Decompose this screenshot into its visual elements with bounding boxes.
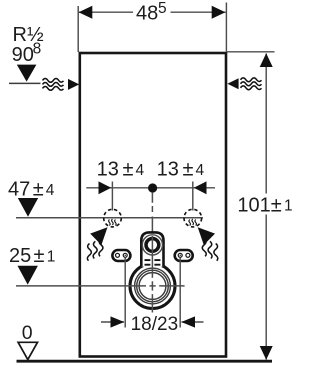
width dimension 48.5 extension line left [77,6,79,52]
water supply label 90.8 [12,41,42,66]
47±4 label [8,178,55,200]
dimension value 13±4 left [97,159,145,181]
svg-text:18/23: 18/23 [131,314,179,335]
mounting plate right [175,250,193,261]
svg-text:13: 13 [97,159,119,181]
18/23 arrow right (points left) [181,316,195,327]
dimension value 13±4 right [157,159,205,181]
width dimension value 48(.5) [136,0,167,25]
extension line left hole [111,182,113,211]
floor line [17,360,273,363]
svg-text:4: 4 [46,182,55,199]
mini squiggles in left circle [109,219,117,226]
svg-text:±: ± [183,159,194,181]
width dimension 48.5 extension line right [225,3,227,52]
25±1 label [9,245,55,267]
svg-text:8: 8 [33,41,42,58]
svg-text:48: 48 [136,3,158,25]
svg-text:0: 0 [22,322,33,344]
25 level triangle [18,266,38,285]
svg-text:4: 4 [136,162,145,179]
47±4 reference line [16,217,203,219]
dimension 13±4 13±4 line [86,187,215,189]
center node dot [148,183,157,192]
svg-text:1: 1 [284,198,293,215]
height dimension 101±1 line [265,54,267,360]
keyhole outlet (flush bend) [141,232,163,266]
dimension 13 arrow right (points left) [194,181,207,194]
hidden-edge dashes in keyhole [145,260,161,265]
mini squiggles in right circle [189,219,197,226]
25±1 reference line / circle horizontal centerline [16,285,185,287]
width dimension arrow left [79,6,93,19]
svg-text:±: ± [34,245,45,267]
18/23 extension line right [179,258,181,328]
supply level triangle [17,65,37,82]
svg-text:±: ± [123,159,134,181]
keyhole inner rings [142,235,162,255]
supply level base line [9,82,41,84]
svg-text:5: 5 [158,0,167,17]
diagonal flow arrow right (squiggles + arrowhead toward circle) [202,239,218,261]
height dimension value 101±1 [237,195,292,217]
water outflow symbol right of box (arrow + squiggle) [241,78,262,90]
height dimension arrow up [260,53,273,67]
47 level triangle [18,198,38,217]
svg-text:47: 47 [8,178,30,200]
18/23 dimension line right tail [182,321,204,323]
svg-text:±: ± [33,178,44,200]
svg-text:1: 1 [47,248,56,265]
mounting plate left [112,250,130,261]
monolith panel outline [80,53,226,357]
dimension 13 arrow left (points right) [99,181,112,194]
dashed circle right (water connection) [184,209,202,227]
water inflow symbol left (squiggle + arrow) [43,79,64,91]
svg-text:13: 13 [157,159,179,181]
dashed circle left (water connection) [104,209,122,227]
18/23 extension line left [124,258,126,328]
svg-text:90: 90 [12,44,34,66]
svg-text:101±: 101± [237,195,281,217]
svg-text:25: 25 [9,245,31,267]
height dimension arrow down [260,346,273,360]
diagonal flow arrow left (squiggles + arrowhead toward circle) [87,239,103,261]
vertical centerline from node to fixture [151,193,153,233]
vertical centerline through flush pipe [151,236,153,313]
svg-text:4: 4 [196,162,205,179]
height dimension 101±1 top extension line [227,51,275,53]
flush pipe concentric circles [130,264,175,309]
18/23 dimension line left tail [101,321,124,323]
0 level open triangle [18,342,37,359]
18/23 arrow left (points right) [111,316,125,327]
width dimension arrow right [212,6,226,19]
extension line right hole [192,182,194,211]
width dimension 48.5 line [78,11,225,13]
